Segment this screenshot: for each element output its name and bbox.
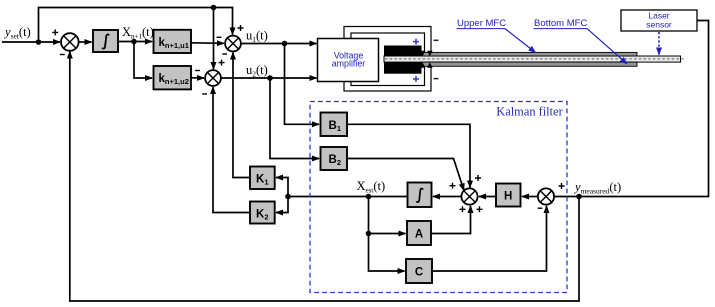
svg-text:Xn+1(t): Xn+1(t) — [122, 25, 154, 41]
svg-text:sensor: sensor — [646, 20, 672, 30]
svg-text:A: A — [415, 229, 423, 241]
svg-text:Upper MFC: Upper MFC — [457, 18, 506, 29]
svg-text:u2(t): u2(t) — [246, 63, 268, 79]
svg-text:ymeasured(t): ymeasured(t) — [573, 180, 621, 196]
svg-text:C: C — [415, 267, 423, 279]
svg-text:Kalman filter: Kalman filter — [496, 105, 563, 119]
svg-text:amplifier: amplifier — [332, 59, 366, 69]
svg-text:H: H — [504, 191, 512, 203]
svg-text:Xest(t): Xest(t) — [357, 179, 386, 195]
svg-text:u1(t): u1(t) — [246, 29, 268, 45]
svg-text:Bottom MFC: Bottom MFC — [534, 18, 587, 29]
svg-text:yset(t): yset(t) — [3, 25, 31, 41]
